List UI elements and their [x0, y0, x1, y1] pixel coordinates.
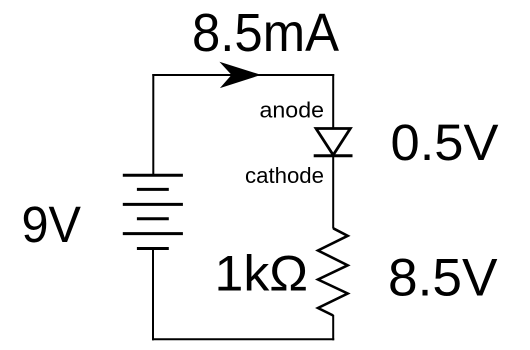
wire resistor to bottom rail [332, 315, 334, 340]
svg-text:8.5V: 8.5V [388, 248, 498, 307]
wire top-left vertical (battery + to top rail) [152, 74, 154, 175]
svg-text:8.5mA: 8.5mA [192, 3, 339, 63]
wire right vertical (top rail to diode anode) [332, 74, 334, 129]
wire bottom rail [152, 338, 334, 340]
battery B1 plate long 2 [123, 203, 183, 206]
wire top rail [152, 74, 334, 76]
resistor R1 zigzag [318, 228, 348, 315]
wire diode cathode to resistor [332, 156, 334, 229]
battery B1 plate short 3 (-) [137, 247, 169, 250]
battery B1 plate short 1 [137, 188, 169, 191]
svg-text:anode: anode [260, 97, 325, 122]
battery B1 plate long 3 [123, 232, 183, 235]
diode D1 cathode bar [314, 154, 353, 157]
svg-text:0.5V: 0.5V [391, 114, 499, 171]
wire bottom-left vertical (bottom rail to battery -) [152, 249, 154, 341]
svg-text:9V: 9V [22, 196, 82, 253]
battery B1 plate short 2 [137, 217, 169, 220]
svg-text:1kΩ: 1kΩ [215, 246, 309, 302]
svg-text:cathode: cathode [245, 163, 324, 188]
current arrow (8.5mA direction) [219, 62, 261, 88]
diode D1 triangle [316, 129, 350, 156]
battery B1 plate long 1 (+) [123, 174, 183, 177]
